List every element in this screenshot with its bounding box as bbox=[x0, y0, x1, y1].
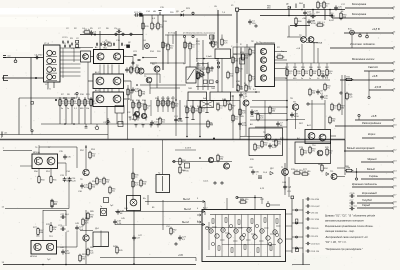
wire v66d bbox=[65, 163, 67, 176]
xtal box bbox=[201, 101, 214, 108]
capacitor row44 114 bbox=[113, 43, 114, 46]
wire box-ladder 2 bbox=[286, 238, 293, 240]
resistor R74 bbox=[309, 146, 316, 155]
resistor R68 bbox=[132, 180, 139, 189]
wire v69 bbox=[68, 181, 70, 209]
resistor ic R94 bbox=[264, 218, 266, 222]
svg-text:Белый электропровод: Белый электропровод bbox=[347, 146, 375, 150]
wire y80 r bbox=[275, 79, 331, 81]
wire v197 bbox=[196, 38, 198, 62]
reg box bbox=[93, 232, 109, 247]
svg-text:Включение кнопки: Включение кнопки bbox=[352, 57, 375, 61]
wire terminal net Светод. 5 bbox=[364, 70, 392, 72]
resistor R29 bbox=[221, 38, 228, 47]
LED HL1 bbox=[348, 28, 354, 35]
IF module A2 box bbox=[93, 74, 124, 89]
wire y230 lk bbox=[80, 230, 93, 232]
wire out1 bbox=[145, 201, 205, 203]
wire box-ladder 0 bbox=[286, 213, 293, 215]
svg-text:10к: 10к bbox=[210, 125, 213, 127]
svg-text:4,7к: 4,7к bbox=[135, 185, 139, 187]
resistor R41 bbox=[217, 103, 224, 112]
junction j134 bbox=[133, 263, 135, 265]
terminal pin 12 bbox=[392, 150, 395, 152]
wire X1 drop bbox=[236, 11, 238, 43]
transistor ic small0 bbox=[205, 226, 208, 229]
junction lm1 bbox=[85, 146, 87, 148]
coil L4 circle bbox=[47, 74, 52, 79]
svg-text:С105: С105 bbox=[350, 193, 356, 195]
wire ic link8 bbox=[220, 239, 225, 241]
wire ic col4 bbox=[241, 215, 243, 257]
svg-text:Своб.: Своб. bbox=[203, 181, 209, 183]
svg-text:Радиоприёмник: Радиоприёмник bbox=[362, 121, 382, 125]
capacitor C25 bbox=[116, 28, 121, 33]
transistor ic small3 bbox=[242, 233, 245, 236]
terminal junk1 bbox=[132, 62, 134, 64]
svg-text:С4Д: С4Д bbox=[287, 187, 292, 189]
jack XS2 bbox=[4, 76, 9, 81]
wire v163b bbox=[162, 200, 164, 230]
svg-text:R66 680: R66 680 bbox=[302, 171, 311, 173]
svg-text:10к: 10к bbox=[112, 191, 115, 193]
wire switch comb0 bbox=[60, 47, 81, 49]
wire ic mid bus2 bbox=[222, 244, 276, 246]
wire comb2 104 bbox=[103, 89, 105, 93]
wire v318 bbox=[317, 48, 319, 63]
wire v119d bbox=[118, 89, 120, 93]
transistor VT9 bbox=[154, 66, 160, 72]
svg-text:L7 L4: L7 L4 bbox=[44, 43, 50, 45]
svg-text:2,2к: 2,2к bbox=[90, 253, 94, 255]
wire v160 bbox=[159, 12, 161, 15]
svg-text:2п Переключатель: 2п Переключатель bbox=[255, 42, 275, 44]
wire y205 mr bbox=[270, 204, 280, 206]
wire v77drop bbox=[76, 147, 78, 168]
resistor x140 bbox=[139, 89, 146, 98]
wire y92 r bbox=[230, 91, 260, 93]
wire v176 bbox=[175, 31, 177, 100]
wire v222 bbox=[221, 59, 223, 93]
wire ic bottom rail bbox=[206, 256, 281, 258]
resistor R85 bbox=[87, 212, 94, 221]
terminal bm3 bbox=[175, 243, 177, 245]
capacitor L1 136 bbox=[135, 125, 138, 128]
wire v86c bbox=[85, 210, 87, 235]
wire y88 mid2 bbox=[150, 87, 180, 89]
resistor R21 bbox=[130, 66, 137, 75]
junction j66b bbox=[65, 264, 67, 266]
svg-text:R81 5,1: R81 5,1 bbox=[317, 22, 325, 24]
resistor R250b bbox=[249, 74, 256, 83]
IC A2 internal box bbox=[202, 210, 286, 262]
terminal sq32 bbox=[31, 102, 34, 105]
capacitor bank С94 4700 bbox=[306, 197, 319, 200]
capacitor C12 bbox=[134, 12, 142, 17]
svg-text:47к: 47к bbox=[99, 182, 102, 184]
capacitor bank С96 150 bbox=[306, 211, 318, 214]
capacitor end180 bbox=[178, 118, 181, 120]
wire v303 ext bbox=[302, 253, 304, 265]
wire ic col2 bbox=[228, 215, 230, 257]
resistor rTR5 bbox=[269, 106, 276, 115]
resistor R70 bbox=[254, 143, 261, 152]
wire ic link0 bbox=[212, 226, 217, 228]
switch box b bbox=[210, 80, 214, 84]
wire v39b bbox=[38, 169, 40, 177]
capacitor L1 143 bbox=[142, 125, 145, 128]
wire out2 v bbox=[204, 212, 206, 216]
label box SB1 bbox=[197, 64, 208, 70]
junction junk 287 bbox=[286, 100, 288, 102]
wire ic link5 bbox=[270, 233, 275, 235]
resistor R54 bbox=[245, 84, 252, 93]
terminal X1 bbox=[236, 8, 239, 11]
wire ic col10 bbox=[279, 215, 281, 257]
wire y100 seg bbox=[200, 100, 240, 102]
wire y150 left bbox=[3, 150, 32, 152]
junction rTR2 bbox=[286, 119, 288, 121]
wire terminal net Блокировка 0 bbox=[345, 7, 392, 9]
svg-text:Выход: Выход bbox=[183, 198, 191, 201]
capacitor end207 bbox=[205, 112, 208, 114]
output pair box A7 bbox=[31, 241, 57, 255]
arrow out2 bbox=[203, 210, 206, 212]
resistor R60 bbox=[38, 175, 46, 184]
wire rung0 bbox=[292, 209, 303, 211]
junction junk 237 bbox=[236, 89, 238, 91]
wire rung TR0 bbox=[252, 100, 287, 102]
capacitor C75 bbox=[321, 73, 329, 79]
wire v287 bbox=[286, 63, 288, 100]
wire left y78 bbox=[2, 77, 43, 79]
capacitor xtr2 bbox=[316, 89, 324, 95]
resistor above box bbox=[239, 199, 249, 203]
wire vd2168 bbox=[167, 96, 169, 112]
capacitor bm2 bbox=[178, 235, 186, 241]
capacitor C16 bbox=[329, 13, 334, 18]
resistor junk R233 bbox=[232, 114, 239, 123]
wire rung TR1 bbox=[250, 106, 287, 108]
svg-text:4,7к: 4,7к bbox=[242, 113, 246, 115]
tone box bbox=[249, 128, 283, 156]
wire ic col8 bbox=[267, 215, 269, 257]
component u97 bbox=[95, 126, 98, 129]
resistor R33 bbox=[144, 103, 151, 112]
wire terminal net Белый электропровод 11 bbox=[344, 150, 392, 152]
wire v325b bbox=[324, 100, 326, 129]
svg-text:1,3мВ: 1,3мВ bbox=[206, 56, 212, 58]
resistor R27 bbox=[189, 42, 196, 51]
wire vd2163 bbox=[162, 96, 164, 112]
svg-text:Серый: Серый bbox=[362, 203, 371, 207]
terminal pin 2 bbox=[392, 17, 395, 19]
svg-text:10к: 10к bbox=[74, 103, 77, 105]
wire v101 bbox=[100, 231, 102, 247]
varicap VD2 bbox=[139, 13, 142, 16]
wire v51c bbox=[50, 222, 52, 226]
resistor R13 bbox=[78, 98, 85, 107]
wire y63 mid bbox=[150, 62, 186, 64]
svg-text:Чёрный: Чёрный bbox=[367, 157, 377, 161]
wire y147 over bbox=[39, 146, 77, 148]
transistor ic VT51 bbox=[278, 239, 282, 243]
wire drop63 327 bbox=[326, 63, 328, 68]
resistor R26 bbox=[184, 41, 191, 50]
wire v173 bbox=[172, 35, 174, 45]
detector box bbox=[186, 67, 196, 83]
resistor R10 bbox=[59, 98, 66, 107]
capacitor row44 97 bbox=[96, 43, 97, 46]
terminal pin 14 bbox=[392, 171, 395, 173]
capacitor y46b bbox=[69, 45, 70, 48]
wire y119 seg bbox=[287, 119, 305, 121]
resistor trc1 bbox=[340, 12, 347, 21]
capacitor C41 bbox=[251, 169, 259, 174]
svg-text:Белый: Белый bbox=[367, 167, 375, 171]
terminal pin 13 bbox=[392, 161, 395, 163]
wire c77 lead bbox=[76, 95, 78, 98]
resistor R65b bbox=[217, 154, 224, 163]
wire v163 bbox=[162, 15, 164, 70]
terminal rTR3 bbox=[251, 112, 253, 114]
resistor xtr1 bbox=[309, 88, 316, 97]
transistor VT25 bbox=[47, 157, 55, 165]
capacitor end187 bbox=[185, 117, 188, 119]
transistor VT19 bbox=[308, 37, 314, 43]
wire r66 link bbox=[290, 25, 310, 27]
transistor VT5 bbox=[113, 77, 121, 85]
wire box-ladder 3 bbox=[286, 250, 293, 252]
svg-text:1к: 1к bbox=[326, 6, 328, 8]
wire v342 bbox=[341, 75, 343, 115]
wire v193b bbox=[192, 100, 194, 119]
wire terminal net Корич. 10 bbox=[362, 137, 392, 139]
wire v131c bbox=[130, 81, 132, 100]
wire sw drop1 bbox=[47, 82, 49, 88]
wire y145 l bbox=[38, 145, 40, 147]
capacitor C50 bbox=[60, 214, 69, 219]
transistor ic VT43 bbox=[227, 234, 231, 238]
terminal rung3 bbox=[296, 247, 298, 249]
wire v218b bbox=[217, 59, 219, 93]
diode VD9 bbox=[286, 4, 291, 9]
wire switch comb7 bbox=[60, 75, 81, 77]
resistor R77 bbox=[301, 171, 311, 175]
terminal o218b bbox=[217, 66, 219, 68]
terminal pin 4 bbox=[392, 47, 395, 49]
wire terminal net +9 В 8 bbox=[355, 119, 392, 121]
terminal pin 17 bbox=[392, 195, 395, 197]
wire v255 up bbox=[254, 195, 256, 210]
svg-text:+9 В: +9 В bbox=[372, 74, 378, 78]
junction L1 b bbox=[73, 123, 75, 125]
wire c32 lead bbox=[31, 132, 33, 135]
svg-text:+9 В: +9 В bbox=[371, 114, 377, 118]
wire v200b bbox=[199, 100, 201, 137]
box under A3 bbox=[115, 106, 124, 114]
transistor VT21 bbox=[265, 134, 271, 140]
wire y150c bbox=[175, 149, 196, 151]
wire col60 bbox=[59, 97, 61, 124]
resistor R65c bbox=[239, 108, 246, 117]
svg-text:С98 0,05: С98 0,05 bbox=[311, 228, 319, 230]
capacitor C45 bbox=[113, 219, 122, 225]
capacitor C+ top bbox=[209, 40, 217, 46]
capacitor x133 bbox=[131, 87, 140, 93]
transistor VT4 bbox=[96, 77, 104, 85]
capacitor row44 122 bbox=[121, 43, 122, 46]
wire v213 bbox=[212, 35, 214, 41]
wire y37 rc bbox=[287, 36, 301, 38]
stub top a bbox=[295, 4, 297, 9]
wire y166 in bbox=[20, 165, 32, 167]
junction blob 140x14 bbox=[139, 13, 141, 15]
capacitor C76 bbox=[320, 94, 328, 100]
wire v306 bbox=[305, 16, 307, 37]
terminal pin 1 bbox=[392, 7, 395, 9]
wire vd151 bbox=[150, 100, 152, 116]
terminal o369 bbox=[368, 96, 370, 98]
ferrite bead L5 bbox=[108, 43, 111, 46]
wire box-ladder 1 bbox=[286, 225, 293, 227]
wire v330 bbox=[329, 10, 331, 16]
resistor R66b bbox=[179, 166, 187, 175]
wire y104 x bbox=[309, 103, 325, 105]
svg-text:4,7к: 4,7к bbox=[260, 118, 264, 120]
wire comb vert74 bbox=[73, 48, 75, 62]
capacitor end193 bbox=[191, 119, 194, 121]
svg-text:4 систем. подсветк.: 4 систем. подсветк. bbox=[350, 42, 376, 46]
wire left ant y57 bbox=[3, 57, 43, 59]
wire y98 link bbox=[19, 97, 77, 99]
wire v241 bbox=[240, 48, 242, 90]
transistor ic VT49 bbox=[266, 236, 270, 240]
resistor R61 bbox=[50, 175, 58, 184]
transistor ic small1 bbox=[211, 242, 214, 245]
wire v246b bbox=[245, 106, 247, 136]
wire drop63 295 bbox=[294, 63, 296, 68]
svg-text:1к: 1к bbox=[67, 108, 69, 110]
wire y77 mid bbox=[159, 74, 161, 83]
wire o359 drop bbox=[358, 117, 360, 120]
resistor R87 bbox=[79, 254, 86, 263]
resistor R47 bbox=[294, 68, 301, 77]
wire v51b bbox=[50, 169, 52, 177]
wire if1 in bbox=[88, 80, 93, 82]
svg-text:С96 150: С96 150 bbox=[311, 212, 318, 214]
wire ic col3 bbox=[234, 215, 236, 257]
AF preamp box A6 bbox=[32, 154, 58, 169]
svg-text:МП41А: МП41А bbox=[30, 255, 37, 258]
wire y85 mid bbox=[140, 84, 186, 86]
resistor R250a bbox=[249, 48, 256, 57]
resistor R36 bbox=[167, 99, 174, 108]
transistor ic small5 bbox=[268, 242, 271, 245]
wire ic col1 bbox=[221, 215, 223, 257]
capacitor bank С100 0,01 bbox=[306, 242, 320, 245]
terminal rung1 bbox=[296, 222, 298, 224]
wire ic top rail bbox=[210, 214, 281, 216]
varicap matrix VD4 bbox=[126, 45, 130, 48]
svg-text:47к: 47к bbox=[252, 53, 255, 55]
wire v227 up bbox=[226, 198, 228, 210]
wire v43 bbox=[42, 210, 44, 241]
wire v158 bbox=[157, 15, 159, 23]
capacitor junk C240 bbox=[238, 121, 247, 127]
junction y58 bbox=[203, 58, 205, 60]
diode VD11 bbox=[326, 173, 329, 176]
coil L1 circle bbox=[47, 50, 52, 55]
wire drop63 311 bbox=[310, 63, 312, 68]
wire out3 bbox=[115, 224, 205, 226]
svg-text:А2.2: А2.2 bbox=[203, 207, 208, 210]
svg-text:47к: 47к bbox=[154, 27, 157, 29]
junction v255 bbox=[254, 197, 256, 199]
resistor R71 bbox=[261, 140, 268, 149]
junction L1 a bbox=[64, 123, 66, 125]
terminal pin 16 bbox=[392, 186, 395, 188]
capacitor C105 bbox=[349, 193, 355, 198]
junction j95 bbox=[94, 34, 96, 36]
terminal o123 bbox=[122, 33, 124, 35]
terminal k1 bbox=[295, 24, 297, 26]
resistor R12 bbox=[71, 98, 77, 107]
capacitor y46a bbox=[64, 45, 65, 48]
wire y208 left bbox=[5, 208, 69, 210]
junction top1 bbox=[288, 15, 290, 17]
resistor R col 152 bbox=[151, 22, 158, 31]
resistor xtr3 bbox=[329, 116, 336, 125]
wire ic link10 bbox=[276, 225, 281, 227]
resistor R20 bbox=[142, 22, 150, 31]
wire v168 bbox=[167, 35, 169, 44]
wire v247 bbox=[246, 44, 248, 74]
svg-text:2,2к: 2,2к bbox=[297, 73, 301, 75]
op-amp U1 triangle bbox=[197, 72, 205, 79]
wire plus9 bbox=[100, 257, 196, 259]
wire v56 link bbox=[57, 246, 67, 248]
resistor lm b bbox=[103, 177, 110, 186]
transistor ic VT42 bbox=[221, 228, 225, 232]
terminal c32 bbox=[31, 130, 33, 132]
capacitor bank С99 470 bbox=[306, 234, 318, 237]
switch SB2 bbox=[296, 249, 299, 252]
wire v285 bbox=[284, 163, 286, 195]
svg-text:10к: 10к bbox=[175, 106, 178, 108]
transistor VT1 bbox=[83, 54, 89, 60]
resistor R25 bbox=[167, 43, 174, 52]
svg-text:0,047: 0,047 bbox=[178, 121, 184, 123]
wire terminal net Радиоприёмник 9 bbox=[335, 125, 392, 127]
svg-text:Светод.: Светод. bbox=[368, 65, 379, 69]
capacitor junk 139 bbox=[138, 59, 141, 60]
capacitor junk 135 bbox=[134, 54, 137, 55]
svg-text:R1 1к: R1 1к bbox=[84, 29, 89, 31]
transistor ic VT46 bbox=[247, 228, 251, 232]
terminal xtr4 bbox=[307, 103, 309, 105]
transistor VT27 sq bbox=[185, 163, 190, 168]
svg-text:1к: 1к bbox=[173, 232, 175, 234]
terminal t193 bbox=[192, 35, 194, 37]
svg-text:1к: 1к bbox=[182, 162, 184, 164]
resistor R228 bbox=[227, 71, 234, 80]
svg-text:2к: 2к bbox=[301, 78, 303, 80]
resistor R62 bbox=[89, 151, 96, 160]
svg-text:С22 10,0: С22 10,0 bbox=[60, 214, 69, 216]
wire vd2173 bbox=[172, 96, 174, 112]
svg-text:автоматизированного контроля: автоматизированного контроля bbox=[325, 220, 364, 223]
